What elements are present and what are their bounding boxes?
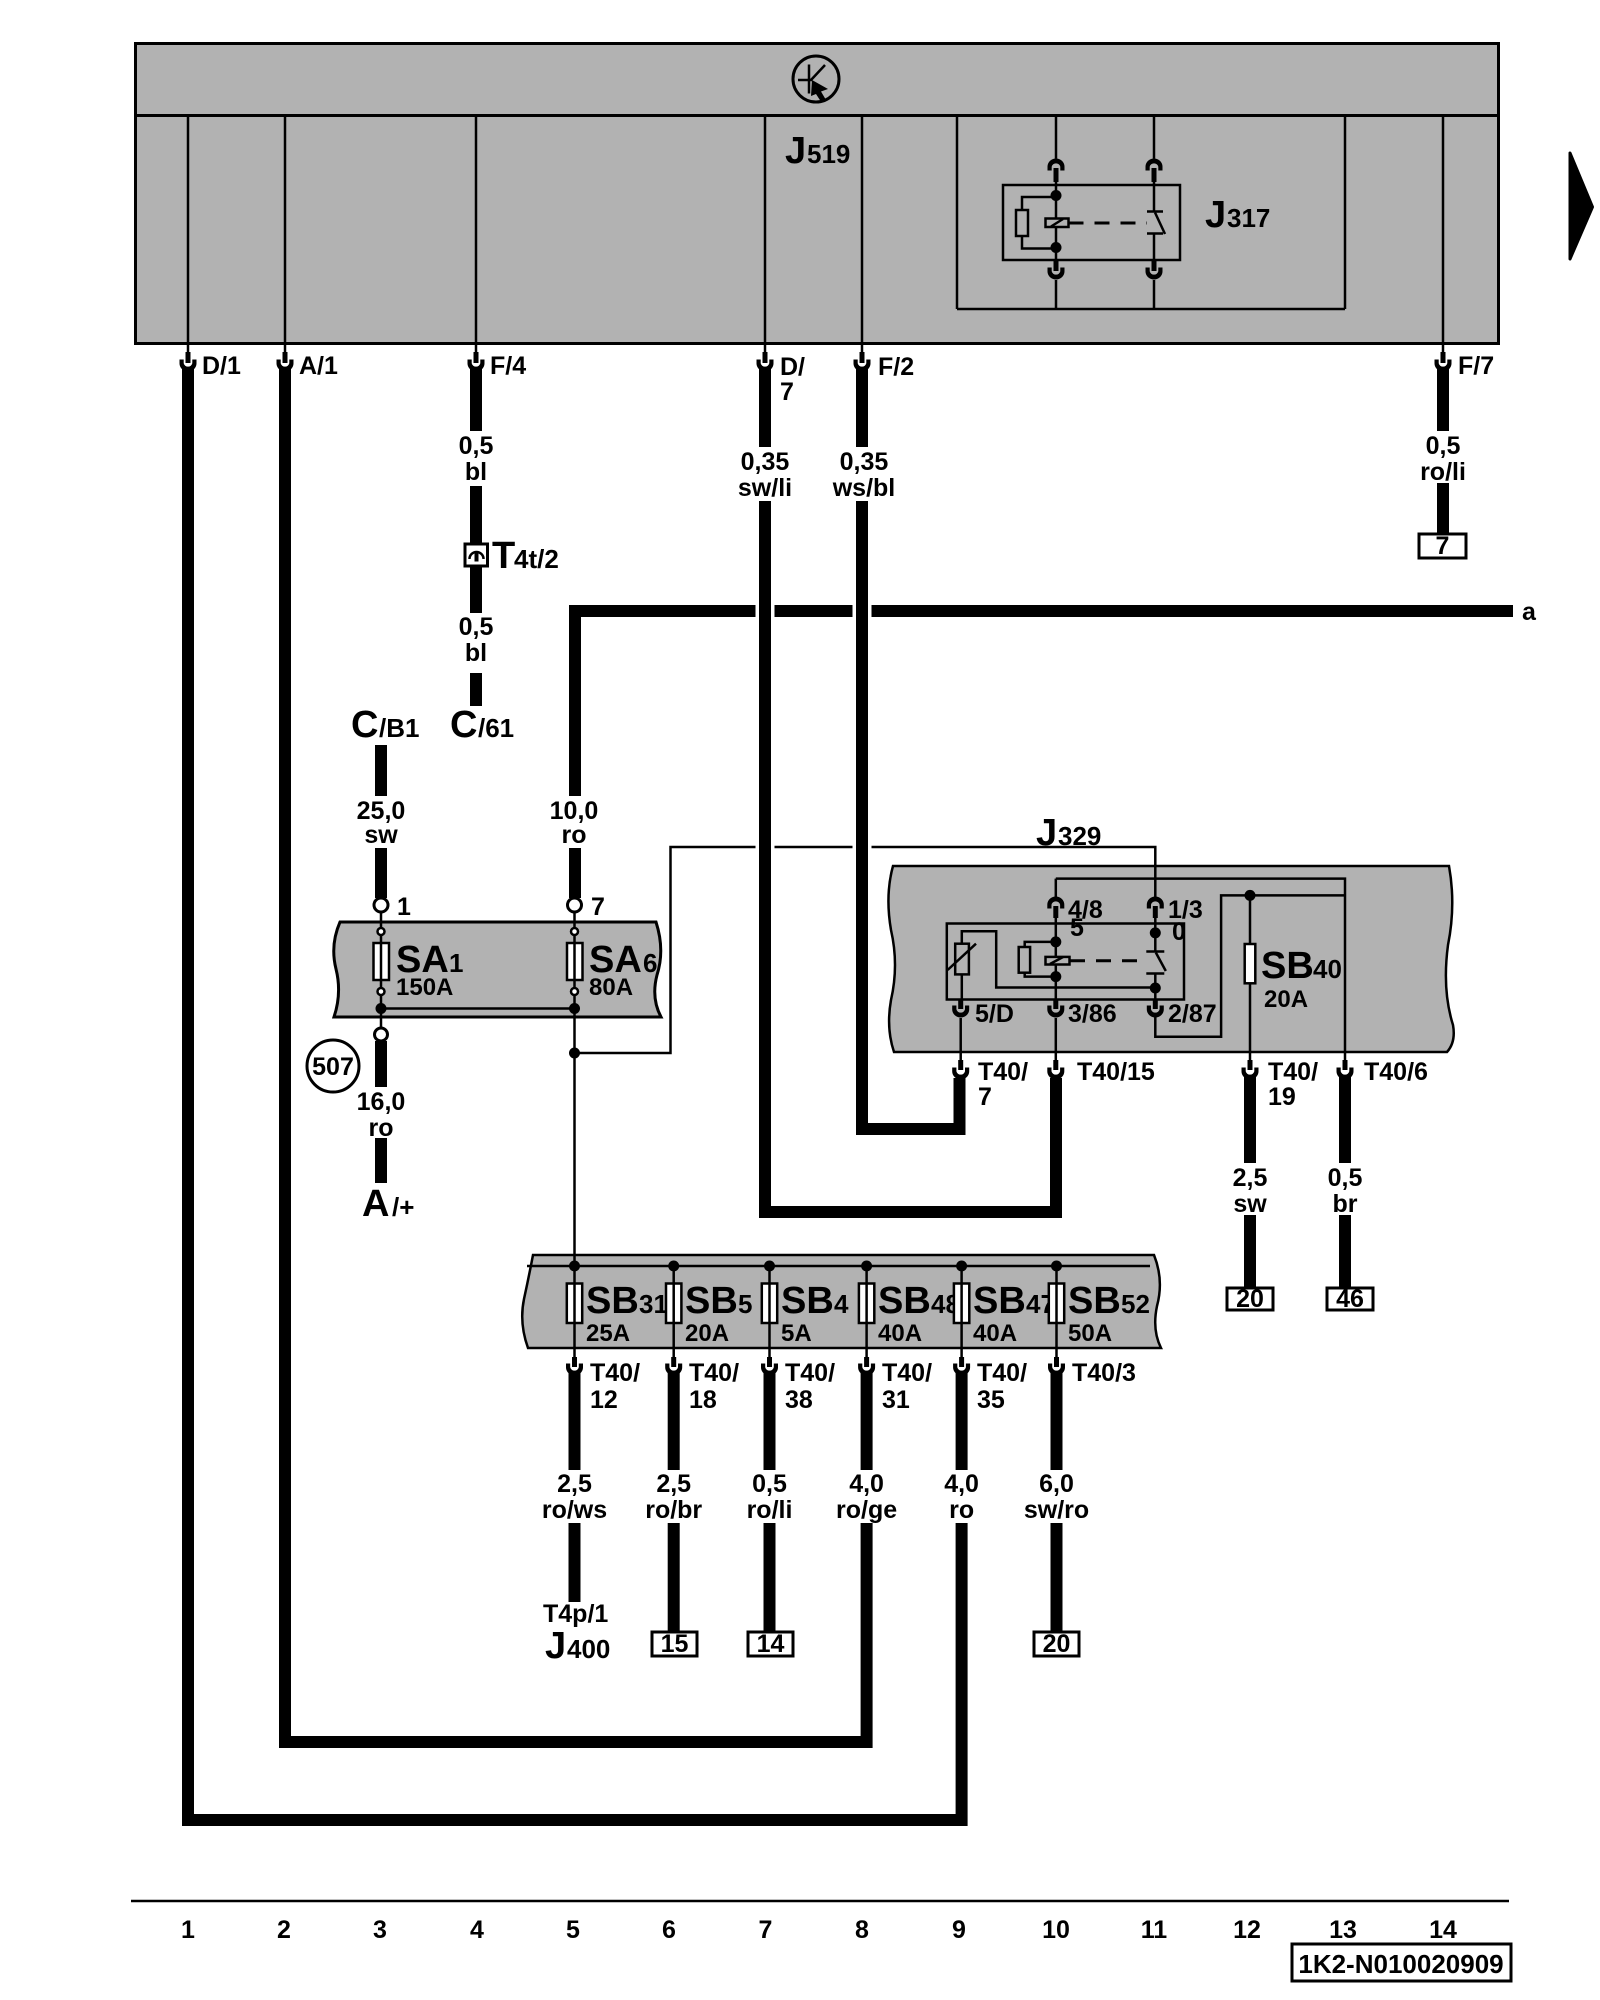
svg-text:40A: 40A <box>878 1320 922 1347</box>
svg-text:1: 1 <box>181 1916 195 1944</box>
threaded post terminal below SA1 <box>375 1028 388 1041</box>
wire label 2,5 ro/br <box>645 1470 702 1524</box>
SA6 terminal 7 connector circle <box>568 893 605 921</box>
svg-text:507: 507 <box>312 1053 354 1081</box>
wire from T40/6 upper segment (0,5 br) <box>1339 1075 1351 1163</box>
terminal D/7 on J519 <box>757 345 806 406</box>
svg-text:1: 1 <box>397 893 411 921</box>
J329 parallel resistor <box>1019 942 1056 977</box>
fuse SB31 25A <box>567 1266 668 1348</box>
wire D/1 to SB47 (long elbow) <box>188 367 962 1820</box>
terminal F/4 on J519 <box>468 345 527 380</box>
page continuation arrow (right margin) <box>1570 153 1593 259</box>
svg-text:T4p/1: T4p/1 <box>543 1600 608 1628</box>
carrier terminal T40/38 below SB4 <box>761 1348 835 1414</box>
svg-text:J: J <box>1205 194 1226 236</box>
wire F/7 upper segment (0,5 ro/li) <box>1437 367 1449 431</box>
wire F/7 lower segment <box>1437 483 1449 534</box>
fuse SA1 150A <box>374 911 464 1009</box>
svg-text:5: 5 <box>738 1289 752 1319</box>
junction dot SA1 output <box>376 1003 387 1014</box>
wire label 4,0 ro <box>944 1470 979 1524</box>
wire label 0,5 ro/li <box>747 1470 793 1524</box>
J329 internal bus from switch output loop to T40/6 column <box>1155 895 1345 1036</box>
svg-text:0,5: 0,5 <box>752 1470 787 1498</box>
svg-text:40A: 40A <box>973 1320 1017 1347</box>
svg-text:1K2-N010020909: 1K2-N010020909 <box>1298 1949 1503 1979</box>
junction dot J329 coil top <box>1050 936 1061 947</box>
svg-text:2: 2 <box>277 1916 291 1944</box>
svg-text:25A: 25A <box>586 1320 630 1347</box>
relay J329 internal outline <box>947 924 1184 1000</box>
svg-text:0,5: 0,5 <box>1426 432 1461 460</box>
wire SB4 output upper segment (0,5 ro/li) <box>764 1371 776 1470</box>
diagram part number box 1K2-N010020909 <box>1292 1944 1511 1981</box>
svg-text:12: 12 <box>590 1386 618 1414</box>
svg-text:5A: 5A <box>781 1320 812 1347</box>
terminal box 20 (SB52 connection) <box>1034 1630 1079 1658</box>
J329 coil feed vertical (pin 4/8 to 3/86) <box>1055 918 1058 1001</box>
J317 lower plug terminal (switch side) <box>1146 261 1163 309</box>
svg-text:6: 6 <box>643 948 657 978</box>
wire column D/1 inside J519 <box>187 115 190 345</box>
svg-text:4,0: 4,0 <box>849 1470 884 1498</box>
svg-text:15: 15 <box>661 1630 689 1658</box>
svg-text:16,0: 16,0 <box>357 1088 406 1116</box>
junction dot SA6 output <box>569 1003 580 1014</box>
wire below T4t/2 (0,5 bl) <box>470 566 482 613</box>
svg-text:sw/li: sw/li <box>738 474 792 502</box>
svg-text:31: 31 <box>639 1289 668 1319</box>
wire from T40/19 lower segment <box>1244 1215 1256 1288</box>
svg-text:A/1: A/1 <box>299 352 338 380</box>
terminal F/2 on J519 <box>854 345 915 381</box>
node C/B1 (alternator terminal B+) <box>351 704 419 746</box>
svg-text:ws/bl: ws/bl <box>832 474 896 502</box>
svg-text:400: 400 <box>567 1634 610 1664</box>
label J317 <box>1205 194 1270 236</box>
wire F/2 upper segment (0,35 ws/bl) <box>856 367 868 447</box>
wire SB4 output lower segment <box>764 1523 776 1632</box>
svg-text:519: 519 <box>807 139 850 169</box>
fuse SB47 40A <box>954 1266 1055 1348</box>
wire label 6,0 sw/ro <box>1024 1470 1089 1524</box>
carrier terminal T40/18 below SB5 <box>665 1348 739 1414</box>
J329 lower plug terminal 2/87 <box>1147 999 1217 1028</box>
svg-text:20A: 20A <box>685 1320 729 1347</box>
svg-text:sw: sw <box>1233 1190 1267 1218</box>
terminal box 7 (connection) <box>1419 532 1466 560</box>
relay/fuse carrier housing J519 (onboard supply control unit, gray box) <box>134 44 1500 344</box>
svg-text:20: 20 <box>1043 1630 1071 1658</box>
wire D/7 to J329 T40/15 (with crossing halo) <box>765 501 1056 1212</box>
wire column F/7 inside J519 <box>1442 115 1445 345</box>
svg-text:3: 3 <box>373 1916 387 1944</box>
J329 lower plug terminal 3/86 <box>1047 999 1116 1052</box>
svg-text:18: 18 <box>689 1386 717 1414</box>
node A/+ (battery positive) <box>362 1183 414 1225</box>
svg-text:38: 38 <box>785 1386 813 1414</box>
svg-text:5: 5 <box>566 1916 580 1944</box>
J317 actuation dashed link <box>1069 222 1148 225</box>
svg-text:4/8: 4/8 <box>1068 896 1103 924</box>
J329 actuation dashed link <box>1070 959 1147 962</box>
svg-text:3/86: 3/86 <box>1068 1000 1117 1028</box>
svg-text:13: 13 <box>1329 1916 1357 1944</box>
terminal box 14 (connection) <box>748 1630 793 1658</box>
terminal A/1 on J519 <box>277 345 339 380</box>
svg-text:0,5: 0,5 <box>459 432 494 460</box>
svg-text:1/3: 1/3 <box>1168 896 1203 924</box>
J317 parallel resistor <box>1016 197 1056 249</box>
wire column F/2 inside J519 <box>861 115 864 345</box>
svg-text:31: 31 <box>882 1386 910 1414</box>
svg-text:0,5: 0,5 <box>459 613 494 641</box>
svg-text:80A: 80A <box>589 974 633 1001</box>
svg-text:SB: SB <box>781 1280 834 1322</box>
wire A/1 to SB48 (long elbow) <box>285 367 867 1742</box>
J317 lower plug terminal (coil side) <box>1048 261 1065 309</box>
carrier terminal T40/7 below J329 <box>952 1052 1028 1111</box>
current track scale rule <box>131 1900 1509 1903</box>
svg-text:50A: 50A <box>1068 1320 1112 1347</box>
fuse SB48 40A <box>859 1266 960 1348</box>
carrier terminal T40/12 below SB31 <box>566 1348 640 1414</box>
svg-text:C: C <box>450 704 477 746</box>
svg-text:35: 35 <box>977 1386 1005 1414</box>
wire SB31 output upper segment (2,5 ro/ws) <box>569 1371 581 1470</box>
SA1 output lead to threaded terminal <box>380 1009 383 1029</box>
terminal box 46 (connection) <box>1327 1285 1373 1313</box>
svg-text:SB: SB <box>1068 1280 1121 1322</box>
wire label 2,5 sw <box>1233 1164 1268 1218</box>
svg-text:bl: bl <box>465 458 487 486</box>
svg-text:2,5: 2,5 <box>557 1470 592 1498</box>
wire from T40/19 upper segment (2,5 sw) <box>1244 1075 1256 1163</box>
svg-text:T40/: T40/ <box>689 1359 739 1387</box>
svg-text:SB: SB <box>1261 945 1314 987</box>
wire label 0,5 bl (lower F/4) <box>459 613 494 667</box>
terminal D/1 on J519 <box>180 345 242 380</box>
relay J317 (voltage supply relay 2) outline <box>1003 185 1180 260</box>
svg-text:/B1: /B1 <box>379 713 419 743</box>
J329 relay coil (armature winding with slash) <box>1046 957 1070 965</box>
svg-text:6,0: 6,0 <box>1039 1470 1074 1498</box>
terminal box 15 (connection) <box>652 1630 697 1658</box>
label J400 (wiper motor control unit) <box>545 1625 610 1667</box>
wire F/4 upper segment (0,5 bl) <box>470 367 482 431</box>
wire a (10,0 ro feed, to right edge) <box>575 598 1537 796</box>
wire 16,0 ro lower segment <box>375 1138 387 1183</box>
svg-text:14: 14 <box>757 1630 785 1658</box>
svg-text:ro/ws: ro/ws <box>542 1496 607 1524</box>
junction dot SB4 <box>764 1261 775 1272</box>
svg-text:T40/6: T40/6 <box>1364 1058 1428 1086</box>
wire SB52 output lower segment <box>1051 1523 1063 1632</box>
carrier terminal T40/35 below SB47 <box>953 1348 1027 1414</box>
fuse holder SB (fuse box, gray, torn edges) <box>522 1255 1161 1348</box>
svg-text:ro/li: ro/li <box>1420 458 1466 486</box>
fuse SB5 20A <box>666 1266 752 1348</box>
connector T4t/2 <box>465 535 559 577</box>
wire label 0,5 bl (upper F/4) <box>459 432 494 486</box>
svg-text:J: J <box>785 130 806 172</box>
svg-text:F/4: F/4 <box>490 352 526 380</box>
svg-text:F/2: F/2 <box>878 353 914 381</box>
terminal F/7 on J519 <box>1435 345 1495 380</box>
svg-text:7: 7 <box>1436 532 1450 560</box>
wire from C/B1 (25,0 sw) <box>375 745 387 796</box>
symbol: circled contact-arrow mark on J519 <box>793 56 839 103</box>
junction dot SB5 <box>668 1261 679 1272</box>
wire label 10,0 ro <box>550 797 599 849</box>
svg-text:T40/: T40/ <box>590 1359 640 1387</box>
carrier terminal T40/19 below J329 <box>1242 1052 1319 1111</box>
J329 thermal element <box>948 931 1156 1001</box>
bus bar inside SB box <box>527 1265 1150 1268</box>
svg-text:A: A <box>362 1183 389 1225</box>
svg-text:T40/3: T40/3 <box>1072 1359 1136 1387</box>
svg-text:46: 46 <box>1336 1285 1364 1313</box>
svg-text:D/1: D/1 <box>202 352 241 380</box>
fuse SA6 80A <box>567 911 657 1009</box>
svg-text:4: 4 <box>470 1916 484 1944</box>
svg-text:D/: D/ <box>780 353 805 381</box>
wire SB5 output upper segment (2,5 ro/br) <box>668 1371 680 1470</box>
svg-text:T40/: T40/ <box>977 1359 1027 1387</box>
wire label 2,5 ro/ws <box>542 1470 607 1524</box>
svg-text:T40/15: T40/15 <box>1077 1058 1155 1086</box>
wire SB5 output lower segment <box>668 1523 680 1632</box>
wire label 0,5 br <box>1328 1164 1363 1218</box>
svg-text:2/87: 2/87 <box>1168 1000 1217 1028</box>
svg-text:sw: sw <box>364 821 398 849</box>
svg-text:19: 19 <box>1268 1083 1296 1111</box>
junction dot SB40 feed <box>1245 890 1256 901</box>
svg-text:ro: ro <box>369 1114 394 1142</box>
J329 upper plug terminal 1/3 <box>1147 896 1203 924</box>
wire column F/4 inside J519 <box>475 115 478 345</box>
wire label 0,35 sw/li <box>738 448 792 502</box>
svg-text:10: 10 <box>1042 1916 1070 1944</box>
svg-text:40: 40 <box>1313 954 1342 984</box>
svg-text:4t/2: 4t/2 <box>514 544 559 574</box>
svg-text:11: 11 <box>1141 1916 1168 1944</box>
junction dot J329 coil bottom <box>1050 971 1061 982</box>
svg-text:5/D: 5/D <box>975 1000 1014 1028</box>
svg-text:9: 9 <box>952 1916 966 1944</box>
reference mark 507 <box>307 1040 359 1092</box>
wire label 16,0 ro <box>357 1088 406 1142</box>
svg-text:2,5: 2,5 <box>1233 1164 1268 1192</box>
wire 16,0 ro upper segment <box>375 1041 387 1087</box>
svg-text:2,5: 2,5 <box>656 1470 691 1498</box>
wire SB31 output lower segment to J400 <box>569 1523 581 1602</box>
J317 upper plug terminal (switch side) <box>1146 159 1163 183</box>
svg-text:329: 329 <box>1058 821 1101 851</box>
carrier terminal T40/31 below SB48 <box>858 1348 932 1414</box>
svg-text:ro/br: ro/br <box>645 1496 702 1524</box>
J329 lower plug terminal 5/D <box>952 999 1014 1052</box>
fuse holder SA (battery fuse box, gray, torn edges) <box>334 922 661 1017</box>
svg-text:/+: /+ <box>392 1192 414 1222</box>
svg-text:/61: /61 <box>478 713 514 743</box>
bus bar inside SA box <box>381 1007 575 1010</box>
svg-text:T40/: T40/ <box>882 1359 932 1387</box>
svg-text:4: 4 <box>834 1289 849 1319</box>
J317 relay compartment outline inside J519 <box>957 115 1345 309</box>
carrier terminal T40/15 below J329 <box>1047 1052 1155 1086</box>
junction dot SB47 <box>956 1261 967 1272</box>
svg-text:7: 7 <box>591 893 605 921</box>
carrier terminal T40/6 below J329 <box>1337 1052 1428 1086</box>
junction dot J329 switch top (terminal 30) <box>1150 927 1161 938</box>
svg-text:20A: 20A <box>1264 986 1308 1013</box>
svg-text:J: J <box>545 1625 566 1667</box>
svg-text:br: br <box>1333 1190 1358 1218</box>
svg-text:T: T <box>492 535 515 577</box>
fuse SB4 5A <box>762 1266 849 1348</box>
fuse SB52 50A <box>1049 1266 1150 1348</box>
svg-text:T40/: T40/ <box>1268 1058 1318 1086</box>
junction dot SA6 feed split <box>569 1048 580 1059</box>
svg-text:ro/li: ro/li <box>747 1496 793 1524</box>
J329 upper plug terminal 4/8 <box>1047 879 1103 924</box>
junction dot J317 coil bottom <box>1051 242 1062 253</box>
svg-text:T40/: T40/ <box>978 1058 1028 1086</box>
SA1 terminal 1 connector circle <box>374 893 411 921</box>
wire into SA1 terminal 1 <box>375 848 387 898</box>
wire column D/7 inside J519 <box>764 115 767 345</box>
wire into SA6 terminal 7 (10,0 ro) <box>569 848 581 898</box>
svg-text:ro: ro <box>949 1496 974 1524</box>
svg-text:7: 7 <box>978 1083 992 1111</box>
junction dot SB48 <box>861 1261 872 1272</box>
svg-text:T40/: T40/ <box>785 1359 835 1387</box>
svg-text:6: 6 <box>662 1916 676 1944</box>
J317 relay coil (armature winding with slash) <box>1046 219 1069 228</box>
wire SB47 output upper segment (4,0 ro) <box>956 1371 968 1470</box>
wire stub to node C/61 <box>470 673 482 706</box>
svg-text:ro/ge: ro/ge <box>836 1496 897 1524</box>
svg-text:4,0: 4,0 <box>944 1470 979 1498</box>
wire SA6 output to J329 terminal 1/30 (thin feed) <box>575 847 1156 1053</box>
svg-text:52: 52 <box>1121 1289 1150 1319</box>
svg-text:12: 12 <box>1233 1916 1261 1944</box>
svg-text:C: C <box>351 704 378 746</box>
J329 internal bus from pin 4/8 to T40/6 column <box>1056 879 1345 1052</box>
junction dot SB31 <box>569 1261 580 1272</box>
wire from T40/6 lower segment <box>1339 1215 1351 1288</box>
wire label 0,35 ws/bl <box>832 448 896 502</box>
wire column A/1 inside J519 <box>284 115 287 345</box>
svg-text:sw/ro: sw/ro <box>1024 1496 1089 1524</box>
svg-text:J: J <box>1036 812 1057 854</box>
junction dot J317 coil top <box>1051 190 1062 201</box>
svg-text:317: 317 <box>1227 203 1270 233</box>
J329 switch contact <box>1146 918 1166 1001</box>
svg-text:a: a <box>1522 598 1537 626</box>
fuse SB40 20A <box>1245 895 1342 1052</box>
J317 switch contact <box>1147 182 1165 263</box>
wire SB48 output upper segment (4,0 ro/ge) <box>861 1371 873 1470</box>
svg-text:0,35: 0,35 <box>840 448 889 476</box>
wire label 0,5 ro/li <box>1420 432 1466 486</box>
J317 upper plug terminal (coil side) <box>1048 159 1065 183</box>
SA6 output lead down to junction <box>573 1009 576 1054</box>
node C/61 (alternator terminal 61) <box>450 704 514 746</box>
junction dot SB52 <box>1051 1261 1062 1272</box>
svg-text:bl: bl <box>465 639 487 667</box>
wire to J317 pin 1 (coil feed) <box>1055 115 1058 159</box>
svg-text:F/7: F/7 <box>1458 352 1494 380</box>
wire F/2 to J329 T40/7 (with crossing halo) <box>862 501 960 1129</box>
svg-text:150A: 150A <box>396 974 453 1001</box>
wire D/7 upper segment (0,35 sw/li) <box>759 367 771 447</box>
wire SB52 output upper segment (6,0 sw/ro) <box>1051 1371 1063 1470</box>
svg-text:0,5: 0,5 <box>1328 1164 1363 1192</box>
relay carrier J329 (gray box, torn edges) <box>888 866 1453 1052</box>
junction dot J329 switch bottom (terminal 87) <box>1150 983 1161 994</box>
terminal box 20 (plus connection) <box>1227 1285 1273 1313</box>
svg-text:7: 7 <box>780 378 794 406</box>
svg-text:8: 8 <box>855 1916 869 1944</box>
label J519 <box>785 130 850 172</box>
wire label 25,0 sw <box>357 797 406 849</box>
svg-text:0,35: 0,35 <box>741 448 790 476</box>
wire to J317 pin 2 (switch feed) <box>1153 115 1156 159</box>
svg-text:SB: SB <box>973 1280 1026 1322</box>
wire SA6 output to SB fuse bus <box>573 1053 576 1266</box>
svg-text:SB: SB <box>685 1280 738 1322</box>
wire F/4 to connector T4t/2 <box>470 486 482 544</box>
J317 coil circuit vertical wire <box>1055 182 1058 262</box>
svg-text:20: 20 <box>1236 1285 1264 1313</box>
svg-text:SB: SB <box>586 1280 639 1322</box>
svg-text:SB: SB <box>878 1280 931 1322</box>
svg-text:14: 14 <box>1429 1916 1457 1944</box>
carrier terminal T40/3 below SB52 <box>1048 1348 1136 1387</box>
svg-text:ro: ro <box>562 821 587 849</box>
svg-text:7: 7 <box>759 1916 773 1944</box>
wire label 4,0 ro/ge <box>836 1470 897 1524</box>
label J329 <box>1036 812 1101 854</box>
